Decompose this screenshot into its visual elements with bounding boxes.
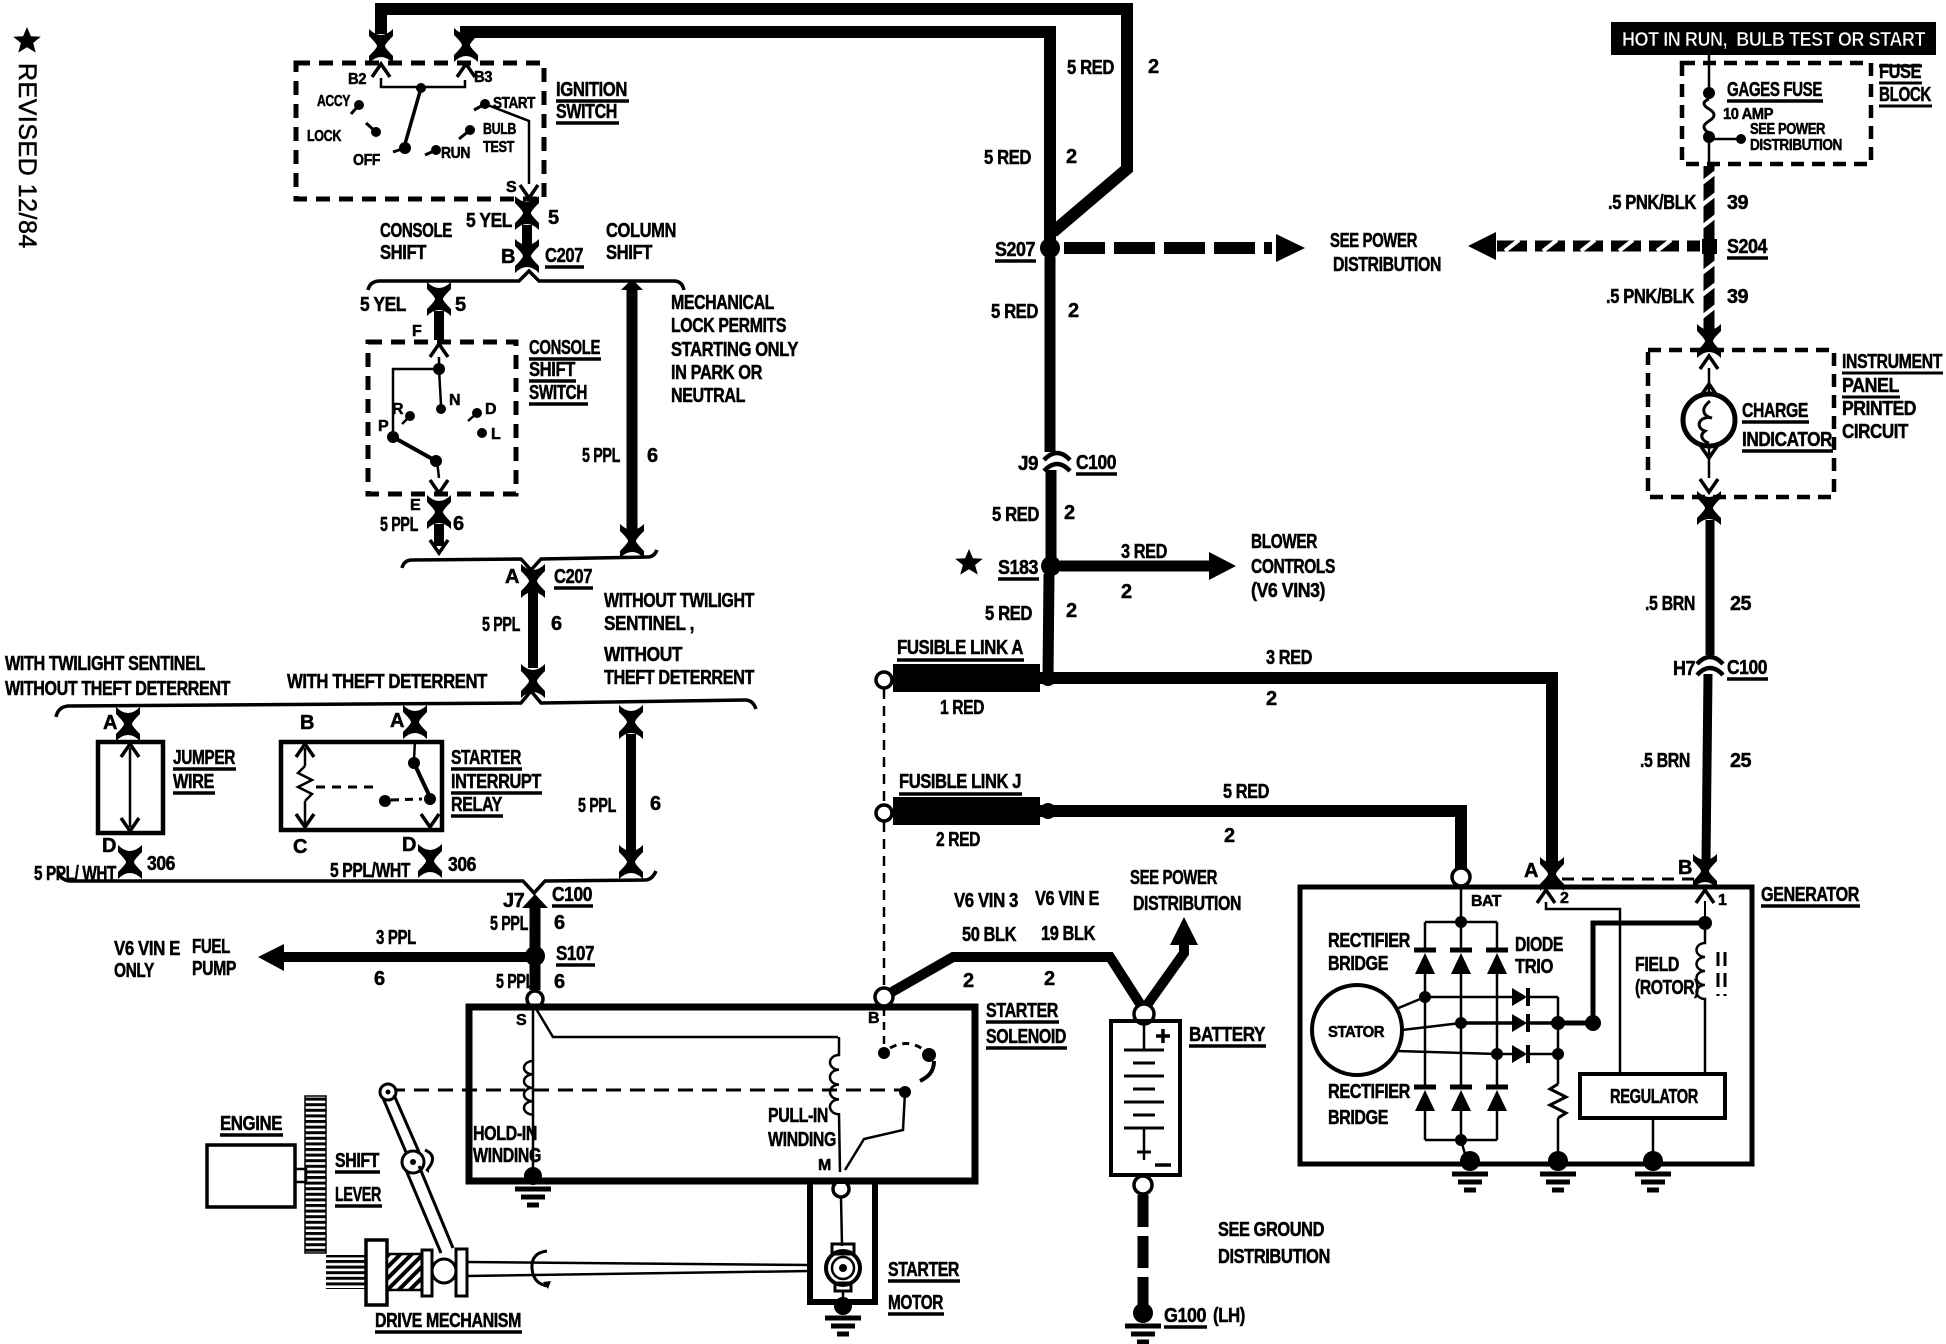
svg-text:5: 5 <box>455 294 466 316</box>
svg-text:MECHANICAL: MECHANICAL <box>671 292 774 314</box>
motor ground <box>834 1297 852 1315</box>
rotor arm to OFF <box>405 88 421 144</box>
svg-text:6: 6 <box>554 971 565 993</box>
A terminal connector <box>1540 857 1564 891</box>
svg-text:306: 306 <box>147 853 175 875</box>
svg-text:WINDING: WINDING <box>768 1129 836 1151</box>
S exit arrow <box>520 185 538 198</box>
svg-text:2: 2 <box>1068 300 1079 322</box>
svg-text:.5 BRN: .5 BRN <box>1645 593 1695 615</box>
svg-text:6: 6 <box>374 968 385 990</box>
svg-text:RELAY: RELAY <box>451 794 503 816</box>
B internal arrow 1 <box>1696 890 1714 903</box>
battery cells <box>1143 1024 1146 1050</box>
svg-text:STARTING ONLY: STARTING ONLY <box>671 339 799 361</box>
rotor node dot <box>433 363 445 375</box>
contact R <box>405 411 415 421</box>
fuse block dashed box <box>1682 63 1871 164</box>
resistor <box>1557 1054 1560 1084</box>
HOT IN RUN banner <box>1611 22 1936 55</box>
relay contact exit arrow D <box>421 814 439 827</box>
svg-text:WITHOUT TWILIGHT: WITHOUT TWILIGHT <box>604 590 754 612</box>
svg-text:B: B <box>1678 857 1692 879</box>
ball joint <box>432 1259 456 1283</box>
thick link to field node <box>1558 923 1705 1023</box>
svg-text:C: C <box>293 836 307 858</box>
wire 5 PPL <box>530 906 541 948</box>
svg-text:IN PARK OR: IN PARK OR <box>671 362 763 384</box>
svg-text:C207: C207 <box>554 566 592 588</box>
relay lever dot <box>379 795 391 807</box>
connector F top <box>427 282 451 316</box>
svg-text:E: E <box>410 497 421 514</box>
svg-text:5 RED: 5 RED <box>985 603 1032 625</box>
svg-text:39: 39 <box>1727 192 1748 214</box>
svg-text:(ROTOR): (ROTOR) <box>1635 977 1699 999</box>
svg-text:F: F <box>412 323 422 340</box>
wire 5 PPL below E <box>434 524 444 546</box>
wire 50 BLK/19 BLK <box>890 957 1144 1010</box>
svg-text:C100: C100 <box>1076 452 1116 474</box>
svg-text:5: 5 <box>548 207 559 229</box>
svg-text:25: 25 <box>1730 750 1751 772</box>
contact LOCK <box>371 127 381 137</box>
svg-text:IGNITION: IGNITION <box>556 79 627 101</box>
battery bottom circle <box>1134 1176 1152 1194</box>
svg-text:MOTOR: MOTOR <box>888 1292 944 1314</box>
svg-text:A: A <box>103 712 117 734</box>
S terminal circle <box>527 991 543 1007</box>
svg-text:RUN: RUN <box>441 145 470 162</box>
svg-text:REVISED 12/84: REVISED 12/84 <box>13 63 41 249</box>
svg-text:BRIDGE: BRIDGE <box>1328 953 1388 975</box>
svg-text:B: B <box>300 712 314 734</box>
splice S183 with star <box>955 549 983 575</box>
svg-text:PULL-IN: PULL-IN <box>768 1105 828 1127</box>
svg-text:INDICATOR: INDICATOR <box>1742 429 1833 451</box>
svg-text:6: 6 <box>551 613 562 635</box>
wire 5 RED from link J to generator BAT <box>1040 811 1461 870</box>
svg-text:5 RED: 5 RED <box>991 301 1038 323</box>
svg-text:A: A <box>505 566 519 588</box>
svg-text:306: 306 <box>448 854 476 876</box>
wire .5 BRN upper <box>1706 520 1715 655</box>
svg-text:S207: S207 <box>995 239 1035 261</box>
svg-text:LEVER: LEVER <box>335 1184 382 1206</box>
contact BULB TEST <box>465 125 475 135</box>
svg-text:STATOR: STATOR <box>1328 1024 1385 1041</box>
wire START to S <box>485 104 529 184</box>
arrow into B3 <box>457 64 475 77</box>
svg-text:PUMP: PUMP <box>192 958 236 980</box>
brace D (gathers to J7/C100) <box>58 871 656 893</box>
svg-text:GAGES FUSE: GAGES FUSE <box>1727 79 1822 101</box>
upper rectifier rail <box>1425 921 1497 924</box>
3 RED arrow to blower controls <box>1060 561 1213 572</box>
wire 5 RED below J9 <box>1046 470 1057 558</box>
svg-text:2: 2 <box>1148 56 1159 78</box>
svg-text:REGULATOR: REGULATOR <box>1610 1086 1699 1108</box>
svg-text:B: B <box>868 1010 879 1027</box>
svg-text:M: M <box>818 1157 831 1174</box>
link J left circle <box>876 805 892 821</box>
battery minus <box>1155 1163 1171 1167</box>
connector into instrument panel <box>1697 324 1721 358</box>
svg-text:B3: B3 <box>474 69 493 86</box>
svg-text:.5 BRN: .5 BRN <box>1640 750 1690 772</box>
relay box <box>281 742 442 830</box>
solenoid contact arc <box>890 1043 924 1050</box>
svg-text:2: 2 <box>1044 968 1055 990</box>
svg-text:WITHOUT THEFT DETERRENT: WITHOUT THEFT DETERRENT <box>5 678 230 700</box>
battery plus <box>1156 1034 1170 1038</box>
linkage dashed line <box>390 1089 900 1092</box>
stator leads <box>1396 997 1425 1009</box>
svg-text:N: N <box>449 392 460 409</box>
svg-text:5 YEL: 5 YEL <box>466 210 512 232</box>
svg-text:.5 PNK/BLK: .5 PNK/BLK <box>1606 286 1695 308</box>
wire 5 PPL below C207-A <box>528 592 538 668</box>
svg-text:HOLD-IN: HOLD-IN <box>473 1123 537 1145</box>
svg-text:INSTRUMENT: INSTRUMENT <box>1842 351 1942 373</box>
svg-text:39: 39 <box>1727 286 1748 308</box>
svg-text:C100: C100 <box>1727 657 1767 679</box>
pull-in coil <box>830 1037 840 1172</box>
label STARTER MOTOR <box>888 1259 960 1314</box>
wire 5 RED below S183 <box>1048 574 1049 678</box>
battery box <box>1111 1021 1180 1175</box>
svg-text:(LH): (LH) <box>1213 1305 1245 1327</box>
svg-text:S: S <box>516 1012 527 1029</box>
svg-text:S204: S204 <box>1727 236 1768 258</box>
svg-text:SOLENOID: SOLENOID <box>986 1026 1066 1048</box>
svg-text:50 BLK: 50 BLK <box>962 924 1017 946</box>
svg-text:SEE POWER: SEE POWER <box>1330 230 1418 252</box>
svg-text:BULB: BULB <box>483 121 516 138</box>
wire 5 YEL <box>522 225 532 248</box>
svg-text:5 RED: 5 RED <box>984 147 1031 169</box>
svg-text:1 RED: 1 RED <box>940 697 984 719</box>
arrow into B2 <box>372 64 390 77</box>
svg-text:WIRE: WIRE <box>173 771 214 793</box>
hold-in winding line <box>532 1010 535 1176</box>
svg-text:CONSOLE: CONSOLE <box>529 337 600 359</box>
hold-in coil <box>524 1061 533 1115</box>
wire 5 PPL column (long vertical) <box>627 288 638 533</box>
contact D <box>472 408 482 418</box>
battery terminal circle <box>1134 1004 1154 1024</box>
generator ground 2 <box>1548 1151 1568 1171</box>
solenoid box <box>469 1007 975 1181</box>
ignition switch dashed box <box>296 63 544 199</box>
rotation arc <box>532 1251 548 1286</box>
field rotor coil <box>1697 930 1706 1074</box>
svg-text:C100: C100 <box>552 884 592 906</box>
svg-text:V6 VIN E: V6 VIN E <box>114 938 180 960</box>
rotor core bars <box>1717 952 1720 996</box>
connector above brace C <box>521 664 545 698</box>
svg-text:5 PPL/WHT: 5 PPL/WHT <box>330 860 410 882</box>
svg-text:WITHOUT: WITHOUT <box>604 644 682 666</box>
contact L <box>477 428 487 438</box>
moving arm P to node <box>393 437 436 461</box>
svg-text:SEE POWER: SEE POWER <box>1750 121 1826 138</box>
connector C207-B <box>515 239 539 273</box>
console shift switch dashed box <box>368 342 516 494</box>
connector relay D 306 <box>418 844 442 878</box>
relay contact right <box>414 740 415 760</box>
label CONSOLE SHIFT SWITCH <box>529 337 601 404</box>
svg-text:R: R <box>392 401 404 418</box>
arm to N <box>439 369 441 405</box>
contact ACCY <box>354 100 364 110</box>
svg-text:CONTROLS: CONTROLS <box>1251 556 1335 578</box>
starter motor box <box>810 1181 875 1302</box>
svg-text:BRIDGE: BRIDGE <box>1328 1107 1388 1129</box>
svg-text:FUSE: FUSE <box>1879 61 1921 83</box>
connector at B3 <box>454 28 478 62</box>
svg-text:2: 2 <box>1121 581 1132 603</box>
svg-text:FUSIBLE LINK A: FUSIBLE LINK A <box>897 637 1023 659</box>
svg-text:STARTER: STARTER <box>451 747 522 769</box>
B dashed drop <box>883 1008 886 1048</box>
svg-text:FUSIBLE LINK J: FUSIBLE LINK J <box>899 771 1021 793</box>
svg-text:L: L <box>491 426 501 443</box>
svg-text:5 PPL: 5 PPL <box>380 514 418 536</box>
connector J7 C100 arrow <box>522 894 548 908</box>
svg-text:SHIFT: SHIFT <box>335 1150 379 1172</box>
arrow into box <box>430 344 448 357</box>
phase rows <box>1419 991 1431 1003</box>
svg-text:HOT IN RUN, BULB TEST OR STAR: HOT IN RUN, BULB TEST OR START <box>1622 29 1925 51</box>
A internal arrow 2 <box>1537 890 1555 903</box>
see power distribution stub <box>1713 138 1738 141</box>
jumper internal arrow line <box>129 748 132 827</box>
svg-text:B2: B2 <box>348 71 367 88</box>
shift lever <box>380 1084 396 1100</box>
wire to G100 (thick dashed) <box>1138 1195 1149 1305</box>
wire 5 RED below S207 <box>1045 257 1056 452</box>
svg-text:V6 VIN E: V6 VIN E <box>1035 888 1099 910</box>
contact RUN <box>431 145 441 155</box>
svg-text:19 BLK: 19 BLK <box>1041 923 1096 945</box>
gages fuse element <box>1704 99 1714 133</box>
fusible link A bar <box>893 664 1040 692</box>
svg-text:LOCK PERMITS: LOCK PERMITS <box>671 315 786 337</box>
svg-text:3 RED: 3 RED <box>1121 541 1167 563</box>
E exit arrow <box>430 480 448 493</box>
svg-text:WITH TWILIGHT SENTINEL: WITH TWILIGHT SENTINEL <box>5 653 205 675</box>
fuse wire <box>1708 55 1711 90</box>
contact START <box>480 99 490 109</box>
svg-text:D: D <box>485 401 496 418</box>
svg-text:.5 PNK/BLK: .5 PNK/BLK <box>1608 192 1697 214</box>
engine stub <box>295 1169 306 1182</box>
link A left circle <box>876 672 892 688</box>
svg-text:6: 6 <box>650 793 661 815</box>
connector D 306 <box>118 845 142 879</box>
motor symbol <box>832 1244 854 1254</box>
svg-text:2 RED: 2 RED <box>936 829 980 851</box>
relay coil exit arrow <box>296 814 314 827</box>
connector under E <box>427 495 451 529</box>
branch 3 : 5 PPL wire right <box>619 705 643 739</box>
svg-text:SEE POWER: SEE POWER <box>1130 867 1218 889</box>
rotor pivot dot <box>416 83 426 93</box>
svg-text:BLOWER: BLOWER <box>1251 531 1318 553</box>
svg-text:5 RED: 5 RED <box>1067 57 1114 79</box>
svg-text:2: 2 <box>1066 146 1077 168</box>
svg-text:G100: G100 <box>1164 1305 1206 1327</box>
label IGNITION SWITCH <box>556 79 629 123</box>
S internal wiring <box>535 1007 838 1037</box>
svg-text:6: 6 <box>554 912 565 934</box>
shaft <box>467 1262 810 1265</box>
brace B (gathers to A/C207) <box>402 550 657 570</box>
connector under S <box>515 196 539 230</box>
svg-text:5 PPL: 5 PPL <box>482 614 520 636</box>
wire 3 RED from link A to generator A <box>1040 678 1552 864</box>
diode trio <box>1512 988 1528 1006</box>
wire .5 BRN lower <box>1706 674 1708 862</box>
hatched dashed arrow left <box>1468 232 1700 260</box>
contact linkage wires <box>845 1092 905 1170</box>
svg-text:THEFT DETERRENT: THEFT DETERRENT <box>604 667 754 689</box>
svg-text:2: 2 <box>1224 825 1235 847</box>
svg-text:P: P <box>378 418 389 435</box>
svg-text:C207: C207 <box>545 245 583 267</box>
label JUMPER WIRE <box>173 747 236 793</box>
svg-text:DISTRIBUTION: DISTRIBUTION <box>1218 1246 1330 1268</box>
svg-text:TRIO: TRIO <box>1515 956 1553 978</box>
svg-text:SHIFT: SHIFT <box>380 242 426 264</box>
svg-text:5 PPL: 5 PPL <box>582 445 620 467</box>
svg-text:RECTIFIER: RECTIFIER <box>1328 1081 1411 1103</box>
svg-text:GENERATOR: GENERATOR <box>1761 884 1860 906</box>
svg-text:INTERRUPT: INTERRUPT <box>451 771 541 793</box>
dashed line linking fusible links to B <box>883 689 886 804</box>
svg-text:LOCK: LOCK <box>307 128 342 145</box>
svg-text:BAT: BAT <box>1471 893 1502 910</box>
svg-text:SENTINEL ,: SENTINEL , <box>604 613 694 635</box>
svg-text:1: 1 <box>1718 892 1727 909</box>
flange 1 <box>422 1250 432 1296</box>
svg-text:J7: J7 <box>503 890 525 912</box>
G100 ground <box>1133 1303 1153 1323</box>
svg-text:5 RED: 5 RED <box>1223 781 1269 803</box>
connector H7 C100 <box>1697 657 1723 675</box>
svg-text:3 RED: 3 RED <box>1266 647 1312 669</box>
svg-text:CONSOLE: CONSOLE <box>380 220 452 242</box>
label SHIFT LEVER <box>335 1150 382 1206</box>
see power distribution branch <box>1147 941 1184 1005</box>
svg-text:CIRCUIT: CIRCUIT <box>1842 421 1908 443</box>
svg-text:3 PPL: 3 PPL <box>376 927 416 949</box>
charge indicator internals <box>1700 356 1718 369</box>
B terminal connector <box>1693 854 1717 888</box>
svg-text:SEE GROUND: SEE GROUND <box>1218 1219 1324 1241</box>
svg-text:ENGINE: ENGINE <box>220 1113 282 1135</box>
flange 2 <box>456 1249 467 1296</box>
svg-text:5 PPL: 5 PPL <box>578 795 616 817</box>
wire 3 PPL fuel pump arrow <box>278 952 528 962</box>
svg-text:6: 6 <box>647 445 658 467</box>
svg-text:BLOCK: BLOCK <box>1879 84 1932 106</box>
relay dashed actuation line <box>316 786 379 789</box>
svg-text:2: 2 <box>1560 890 1569 907</box>
hatched wire fuse to S204 <box>1702 166 1716 240</box>
svg-text:5 RED: 5 RED <box>992 504 1039 526</box>
svg-text:RECTIFIER: RECTIFIER <box>1328 930 1411 952</box>
wire to switch <box>434 311 444 340</box>
svg-text:DRIVE MECHANISM: DRIVE MECHANISM <box>375 1310 521 1332</box>
svg-text:2: 2 <box>1266 688 1277 710</box>
engine box <box>207 1145 295 1207</box>
svg-text:OFF: OFF <box>353 152 381 169</box>
svg-text:D: D <box>402 834 416 856</box>
svg-text:S: S <box>506 179 517 196</box>
svg-text:A: A <box>1524 860 1538 882</box>
wire 5 RED bus 1 (top) <box>381 9 1127 232</box>
splice S107 <box>525 946 545 966</box>
contact P with arm <box>387 431 399 443</box>
svg-text:6: 6 <box>453 513 464 535</box>
svg-text:DISTRIBUTION: DISTRIBUTION <box>1333 254 1441 276</box>
B terminal circle <box>875 988 893 1006</box>
svg-text:JUMPER: JUMPER <box>173 747 236 769</box>
connector at B2 <box>369 29 393 63</box>
gear rack <box>305 1096 326 1253</box>
dashed arrow right to SEE POWER DISTRIBUTION <box>1064 242 1272 254</box>
generator box <box>1300 887 1752 1164</box>
instrument panel dashed box <box>1648 350 1834 497</box>
M terminal <box>833 1181 849 1197</box>
ignition rotor wires <box>381 78 465 87</box>
svg-text:CHARGE: CHARGE <box>1742 400 1808 422</box>
contact N <box>436 404 446 414</box>
svg-text:H7: H7 <box>1673 658 1695 680</box>
svg-text:WINDING: WINDING <box>473 1145 541 1167</box>
wire 5 PPL below S107 <box>530 964 541 990</box>
svg-text:A: A <box>390 710 404 732</box>
BAT drop into rectifier <box>1460 886 1463 920</box>
relay coil left <box>304 748 307 766</box>
svg-text:2: 2 <box>1064 502 1075 524</box>
jumper wire box <box>98 742 163 833</box>
brace C (distributes to 3 branches) <box>56 691 756 717</box>
dashed top segment between A and B <box>1562 878 1694 881</box>
svg-text:ONLY: ONLY <box>114 960 155 982</box>
wire 5 RED bus 2 <box>466 32 1050 243</box>
svg-text:COLUMN: COLUMN <box>606 220 676 242</box>
svg-text:DISTRIBUTION: DISTRIBUTION <box>1133 893 1241 915</box>
BAT terminal <box>1452 868 1470 886</box>
svg-text:PANEL: PANEL <box>1842 375 1899 397</box>
lower rectifier diodes <box>1414 1087 1436 1111</box>
hold-in ground <box>524 1167 542 1185</box>
svg-text:STARTER: STARTER <box>888 1259 960 1281</box>
L path to P <box>393 369 439 434</box>
svg-text:SWITCH: SWITCH <box>529 382 587 404</box>
lower comb <box>326 1255 368 1289</box>
brace A (distributes C207 to console/column) <box>368 271 684 290</box>
svg-text:S183: S183 <box>998 557 1038 579</box>
connector C207-A <box>521 564 545 598</box>
connector below instrument panel <box>1697 491 1721 525</box>
svg-text:V6 VIN 3: V6 VIN 3 <box>954 890 1018 912</box>
svg-text:DISTRIBUTION: DISTRIBUTION <box>1750 137 1842 154</box>
label STARTER INTERRUPT RELAY <box>451 747 542 816</box>
